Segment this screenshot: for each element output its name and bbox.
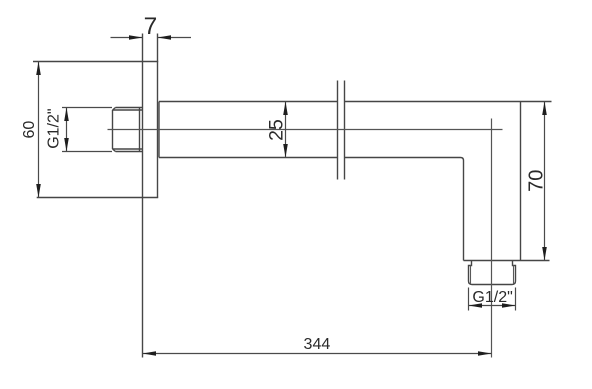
svg-text:70: 70: [525, 170, 547, 192]
svg-text:7: 7: [144, 13, 158, 40]
svg-text:344: 344: [304, 336, 331, 353]
svg-text:25: 25: [266, 119, 288, 141]
svg-text:G1/2": G1/2": [45, 108, 62, 148]
svg-text:60: 60: [21, 121, 38, 139]
svg-text:G1/2": G1/2": [472, 289, 512, 306]
